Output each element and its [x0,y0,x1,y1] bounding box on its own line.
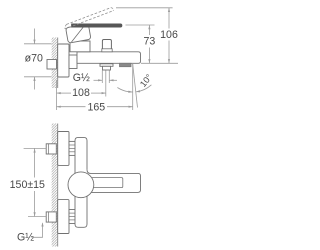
lever bar (closed position) [72,24,123,27]
svg-text:G½: G½ [73,72,90,84]
main body (side) [77,52,141,64]
escutcheon (hot) [58,132,69,166]
hex nut (hot) [69,141,75,155]
dim 106 ext line (top) [116,7,173,9]
dim o70 arrows [34,29,36,44]
dim G1/2 arrows [94,79,103,81]
wall hatch (side view) [52,38,58,89]
body neck (wall elbow) [69,55,77,69]
lever raised (dashed) [67,8,112,25]
bar-to-spout fillet top [87,170,91,174]
10 deg angled spray line [133,64,138,108]
svg-text:G½: G½ [17,232,34,244]
wall face line (plan) [57,124,59,247]
in-wall square (hot) [46,144,56,154]
right extension line (aerator axis) [132,64,134,110]
hex nut (cold) [69,210,75,224]
dim 108 line [57,92,72,94]
dim 165 line [57,106,86,108]
svg-text:ø70: ø70 [25,53,43,65]
dim 150+-15 line [34,148,36,177]
aerator under body [120,63,132,66]
in-wall supply square [47,60,57,70]
wall hatch (plan view) [52,124,58,247]
dim 73 ext line (lever top) [126,24,155,26]
shower outlet thread [103,66,111,70]
svg-text:10°: 10° [138,72,154,89]
left extension line (wall face) for 108/165 [56,80,58,110]
bottom reference line for 73/106 [141,62,178,64]
wall face line [57,38,59,89]
housing inner diagonal [72,26,85,43]
escutcheon (cold) [58,200,69,234]
lever cap circle (plan) [68,172,94,198]
outlet axis extension line [105,71,107,97]
dim G1/2 ext lines (top view) [101,71,103,84]
in-wall square (cold) [46,212,56,222]
svg-text:106: 106 [160,29,178,41]
diverter knob [102,40,111,50]
cartridge housing (tilted) [66,24,91,43]
shower outlet flange [100,64,113,67]
10 deg arc left with arrow [117,88,132,93]
dim 150+-15 ext lines [24,147,47,149]
spout (plan) [90,173,141,192]
svg-text:73: 73 [144,36,156,48]
dim 73 line [148,25,150,35]
cartridge housing base [70,41,90,52]
knob flange tabs [102,49,112,52]
bar-to-spout fillet bottom [87,192,91,196]
dim 106 line [168,8,170,29]
dim o70 ext lines [24,43,52,45]
10 deg arc right with arrow [136,85,152,92]
body bar (plan) [75,137,87,227]
escutcheon (side) [58,44,69,77]
G1/2 leader (plan) [32,223,43,237]
spout inner slot [91,178,123,188]
svg-text:150±15: 150±15 [10,179,45,191]
svg-text:165: 165 [87,102,105,114]
svg-text:108: 108 [72,87,90,99]
